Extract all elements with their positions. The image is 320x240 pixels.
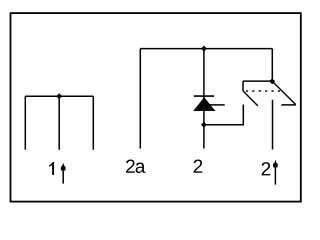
switch S linkage dotted line (246, 90, 282, 92)
diode D triangle (194, 98, 215, 111)
arrow terminal 1 (61, 163, 66, 184)
junction dot switch (269, 78, 275, 84)
wire L from diode junction to switch contact (204, 105, 243, 125)
diode D cathode lead (203, 49, 205, 99)
wire fork middle prong (58, 96, 60, 150)
switch S blade left (243, 91, 258, 106)
wire rail right drop (271, 49, 273, 82)
wire lead 2 arrow right (272, 100, 274, 150)
label 2 mid (194, 160, 203, 173)
label 1 (49, 162, 54, 175)
label 2a (126, 160, 135, 173)
switch S contact hook (281, 104, 296, 106)
wire fork right prong (92, 96, 94, 150)
wire fork left prong (24, 96, 26, 150)
wire fork top horizontal (25, 95, 93, 97)
arrow terminal 2 right (273, 160, 278, 185)
connector fork terminal 1 (25, 96, 93, 150)
diode D cathode bar (194, 95, 214, 97)
wire lead 2a (139, 49, 141, 149)
junction dot top rail (201, 46, 207, 52)
switch S top bar (243, 80, 272, 82)
wire lead 2 (203, 111, 205, 149)
wire diode side stub (204, 104, 225, 106)
switch S left drop (242, 81, 244, 91)
wire top rail (140, 48, 272, 50)
label 2 right (262, 162, 271, 175)
switch S blade right (272, 81, 296, 104)
junction dot fork (56, 93, 62, 99)
junction dot below diode (201, 122, 207, 128)
border frame (11, 13, 301, 202)
